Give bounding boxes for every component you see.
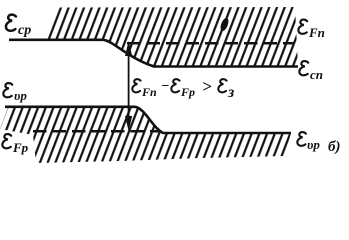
conduction band edge: Ecp flat, step down, Ecn flat	[9, 40, 298, 67]
svg-text:б): б)	[328, 139, 340, 155]
svg-text:Fп: Fп	[308, 25, 325, 40]
quasi-Fermi level EFp (dashed, p-side)	[33, 130, 161, 133]
svg-text:Fр: Fр	[12, 140, 29, 155]
label E_vn and part marker (b) (bottom right)	[297, 132, 340, 155]
label E_vp (left, valence band)	[3, 83, 27, 103]
svg-text:ср: ср	[18, 23, 31, 38]
label E_Fp (bottom left)	[2, 134, 28, 155]
vertical double-headed arrow between EFn and EFp	[128, 48, 130, 126]
svg-text:−: −	[161, 79, 169, 94]
hatched conduction band (upper allowed band)	[44, 7, 298, 67]
label E_Fn (top right)	[298, 20, 325, 40]
svg-text:Fп: Fп	[141, 85, 157, 99]
svg-text:υр: υр	[307, 137, 320, 152]
svg-text:Fр: Fр	[180, 85, 195, 99]
valence band edge: Evp flat, step down, Evn flat	[5, 107, 291, 133]
quasi-Fermi level EFn (dashed, n-side)	[127, 42, 294, 45]
svg-text:υр: υр	[14, 88, 27, 103]
hatched valence band (lower allowed band)	[0, 107, 291, 163]
energy band diagram, part (b): forward-biased degenerate p-n junction	[0, 0, 349, 173]
svg-text:сп: сп	[310, 67, 323, 82]
label E_cn (right, below EFn)	[299, 61, 323, 82]
svg-text:>: >	[202, 77, 212, 96]
svg-text:з: з	[227, 84, 234, 101]
inequality text: EFn - EFp > Eg	[132, 77, 234, 101]
label E_cp (top left)	[6, 15, 31, 38]
electron dot (filled blob in conduction band)	[219, 17, 230, 32]
